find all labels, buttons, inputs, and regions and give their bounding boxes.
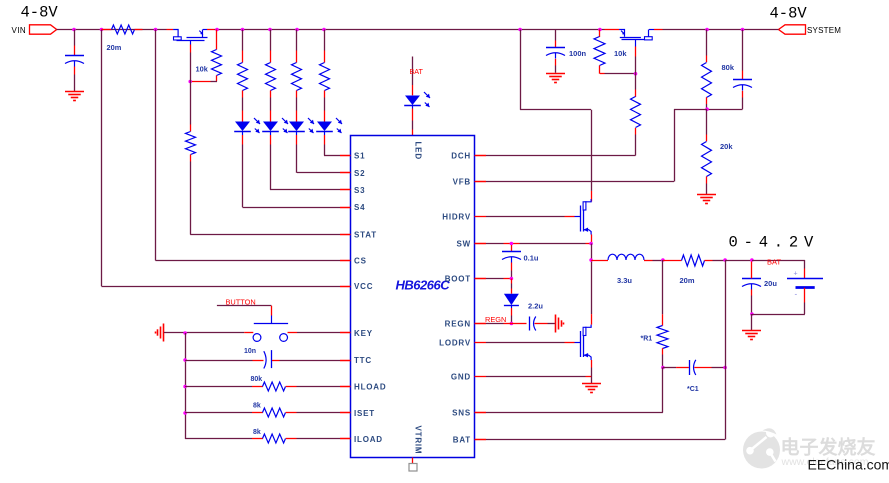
- resistor 8k ISET: [185, 412, 252, 414]
- svg-text:STAT: STAT: [354, 231, 377, 240]
- LED D3: [296, 98, 298, 111]
- svg-text:10n: 10n: [244, 348, 256, 355]
- transistor Q3 NMOS high-side: [575, 199, 592, 234]
- pin HIDRV: [475, 216, 487, 218]
- pin S2: [340, 172, 351, 174]
- pin VCC: [340, 286, 351, 288]
- resistor 80k HLOAD: [185, 386, 252, 388]
- wire KEY net left: [164, 332, 244, 334]
- svg-text:HIDRV: HIDRV: [442, 213, 471, 222]
- svg-text:0.1u: 0.1u: [524, 254, 539, 263]
- pin LED (top): [414, 142, 423, 160]
- pin STAT: [340, 234, 351, 236]
- svg-text:S4: S4: [354, 203, 365, 212]
- svg-text:*C1: *C1: [687, 386, 699, 393]
- svg-text:SYSTEM: SYSTEM: [807, 26, 841, 35]
- svg-text:DCH: DCH: [451, 152, 471, 161]
- wire CS net: [155, 30, 157, 261]
- svg-text:GND: GND: [451, 373, 471, 382]
- svg-text:8k: 8k: [253, 403, 261, 410]
- svg-text:EEChina.com: EEChina.com: [808, 457, 889, 473]
- svg-text:BOOT: BOOT: [445, 275, 471, 284]
- svg-text:VTRIM: VTRIM: [414, 426, 423, 455]
- svg-text:VFB: VFB: [453, 178, 471, 187]
- pin BOOT: [475, 278, 487, 280]
- svg-text:4-8V: 4-8V: [21, 4, 59, 22]
- node SW junction at Q3 source: [589, 242, 593, 246]
- svg-text:CS: CS: [354, 257, 367, 266]
- port VIN: [30, 25, 57, 34]
- wire GND net: [486, 376, 586, 378]
- wire BOOT net: [475, 278, 487, 280]
- node VCC junction: [100, 28, 104, 32]
- inductor 3.3u: [591, 260, 608, 262]
- wire REGN net: [475, 323, 487, 325]
- wire LED 4 to S1: [324, 145, 326, 156]
- wire Q4 drain: [591, 260, 593, 314]
- resistor 20m input sense: [102, 29, 112, 31]
- node SW junction at boot cap: [510, 242, 514, 246]
- svg-text:8k: 8k: [253, 429, 261, 436]
- node REGN junction: [510, 322, 514, 326]
- battery BT1: [804, 260, 806, 269]
- pin S3: [340, 189, 351, 191]
- capacitor 0.1u boot: [511, 245, 513, 252]
- ground 20k: [697, 194, 716, 196]
- wire SNS net: [662, 368, 664, 413]
- wire LED 3 to S2: [296, 145, 298, 173]
- node 10k-2 top junction: [598, 28, 602, 32]
- svg-text:REGN: REGN: [445, 320, 471, 329]
- resistor 20m output sense: [663, 260, 682, 262]
- resistor LED chain 4: [324, 30, 326, 51]
- wire VCC net: [101, 30, 103, 287]
- svg-text:TTC: TTC: [354, 356, 372, 365]
- svg-text:20m: 20m: [107, 43, 122, 52]
- ground input cap: [65, 91, 84, 93]
- node R1 bottom junction: [661, 366, 665, 370]
- wire LODRV net: [486, 342, 565, 344]
- svg-text:-: -: [795, 290, 798, 299]
- capacitor 20u output: [751, 262, 753, 271]
- resistor Q2 pulldown to DCH: [635, 74, 637, 90]
- pin HLOAD: [340, 386, 351, 388]
- wire KEY net right: [297, 332, 340, 334]
- pin CS: [340, 260, 351, 262]
- capacitor 100n: [555, 30, 557, 41]
- no-connect VTRIM: [412, 458, 414, 464]
- port SYSTEM: [779, 25, 806, 34]
- wire Q4 source to ground: [591, 360, 593, 368]
- svg-text:HB6266C: HB6266C: [396, 278, 451, 293]
- wire SW net: [475, 243, 487, 245]
- LED BAT indicator: [412, 85, 414, 95]
- svg-text:SW: SW: [457, 240, 472, 249]
- wire Q2 middle vertical: [635, 47, 637, 57]
- svg-text:BAT: BAT: [453, 436, 471, 445]
- pin VTRIM (bottom): [414, 426, 423, 455]
- node BOOT junction: [510, 277, 514, 281]
- svg-text:10k: 10k: [614, 49, 627, 58]
- diode boot D: [511, 279, 513, 284]
- resistor 20k: [706, 109, 708, 134]
- watermark logo: [743, 428, 780, 468]
- resistor *R1: [662, 260, 664, 314]
- capacitor 10n TTC: [185, 360, 252, 362]
- pin S1: [340, 155, 351, 157]
- svg-text:S2: S2: [354, 169, 365, 178]
- wire HIDRV net: [486, 216, 565, 218]
- svg-text:LODRV: LODRV: [439, 338, 471, 347]
- capacitor divider: [742, 30, 744, 71]
- pin SNS: [475, 412, 487, 414]
- pin KEY: [340, 332, 351, 334]
- resistor STAT pull: [190, 82, 192, 125]
- resistor LED chain 2: [270, 30, 272, 51]
- wire STAT net: [190, 162, 192, 235]
- wire key column: [185, 333, 187, 439]
- transistor Q2 PMOS: [605, 30, 663, 47]
- wire supply to Q3 drain: [520, 30, 522, 110]
- pin TTC: [340, 360, 351, 362]
- svg-text:ISET: ISET: [354, 409, 375, 418]
- svg-text:S1: S1: [354, 152, 365, 161]
- node output sense junction: [723, 258, 727, 262]
- transistor Q4 NMOS low-side: [575, 325, 592, 360]
- svg-text:SNS: SNS: [452, 409, 471, 418]
- resistor 80k: [706, 30, 708, 56]
- node key column junction: [183, 331, 187, 335]
- LED D2: [270, 98, 272, 111]
- pin S4: [340, 207, 351, 209]
- node 10k top junction: [215, 28, 219, 32]
- node output LC junction: [661, 258, 665, 262]
- ground output: [751, 314, 753, 330]
- node LED chain 2 junction: [268, 28, 272, 32]
- wire BAT pin net: [725, 260, 727, 440]
- wire BUTTON label stub: [217, 305, 272, 307]
- svg-text:*R1: *R1: [641, 336, 653, 343]
- wire DCH net: [486, 155, 636, 157]
- wire VFB net: [475, 181, 487, 183]
- transistor Q1 PMOS: [167, 30, 215, 45]
- wire 10k bottom to gate: [211, 81, 218, 83]
- ground chassis (key): [163, 324, 165, 342]
- svg-text:KEY: KEY: [354, 329, 373, 338]
- resistor 8k ILOAD: [185, 438, 252, 440]
- LED D4: [324, 98, 326, 111]
- pin ISET: [340, 412, 351, 414]
- capacitor *C1: [663, 367, 676, 369]
- pin LODRV: [475, 342, 487, 344]
- node C1 right junction: [723, 366, 727, 370]
- node LED chain 4 junction: [322, 28, 326, 32]
- svg-text:LED: LED: [414, 142, 423, 160]
- svg-text:20u: 20u: [764, 279, 777, 288]
- wire 10k-2 bottom to Q2 drain line: [600, 73, 605, 75]
- node supply branch junction: [518, 28, 522, 32]
- svg-text:4-8V: 4-8V: [770, 5, 808, 23]
- capacitor input C: [74, 30, 76, 46]
- wire main top rail: [57, 29, 167, 31]
- svg-text:20k: 20k: [720, 142, 733, 151]
- wire LED 1 to S4: [242, 145, 244, 208]
- node inductor junction: [589, 258, 593, 262]
- pin VFB: [475, 181, 487, 183]
- wire Q1 gate vertical: [190, 45, 192, 53]
- wire BAT net to LED pin: [412, 57, 414, 86]
- node Q2 drain junction: [634, 72, 638, 76]
- resistor 10k (Q1 gate): [216, 30, 218, 50]
- svg-text:80k: 80k: [722, 63, 735, 72]
- node ISET junction: [183, 411, 187, 415]
- svg-text:VCC: VCC: [354, 282, 373, 291]
- pin BAT: [475, 439, 487, 441]
- svg-text:+: +: [794, 271, 798, 278]
- resistor LED chain 3: [296, 30, 298, 51]
- node Q1 gate junction: [188, 80, 192, 84]
- svg-text:ILOAD: ILOAD: [354, 435, 383, 444]
- svg-text:S3: S3: [354, 186, 365, 195]
- svg-text:BAT: BAT: [410, 67, 424, 76]
- svg-text:BAT: BAT: [767, 257, 781, 266]
- node divider cap top junction: [741, 28, 745, 32]
- svg-text:100n: 100n: [569, 49, 587, 58]
- node VIN rail junction: [72, 28, 76, 32]
- svg-text:3.3u: 3.3u: [617, 276, 632, 285]
- svg-text:2.2u: 2.2u: [528, 302, 543, 311]
- op-amp U1 HB6266C IC body: [351, 136, 475, 458]
- svg-text:80k: 80k: [251, 376, 263, 383]
- wire LED 2 to S3: [270, 145, 272, 190]
- node CS junction: [154, 28, 158, 32]
- node divider mid junction: [705, 107, 709, 111]
- node LED chain 1 junction: [241, 28, 245, 32]
- node output cap bottom junction: [750, 312, 754, 316]
- ground power stage: [582, 383, 601, 385]
- pin SW: [475, 243, 487, 245]
- svg-text:VIN: VIN: [12, 26, 27, 35]
- svg-text:10k: 10k: [196, 65, 209, 74]
- switch BUTTON: [244, 316, 297, 342]
- resistor LED chain 1: [242, 30, 244, 51]
- ground REGN cap (right facing): [555, 315, 557, 333]
- pin GND: [475, 376, 487, 378]
- resistor 10k (Q2 gate): [599, 30, 601, 38]
- svg-text:20m: 20m: [680, 276, 695, 285]
- node TTC junction: [183, 358, 187, 362]
- node HLOAD junction: [183, 385, 187, 389]
- LED D1: [242, 98, 244, 111]
- svg-text:REGN: REGN: [485, 315, 506, 324]
- pin REGN: [475, 323, 487, 325]
- node 80k top junction: [705, 28, 709, 32]
- svg-text:HLOAD: HLOAD: [354, 383, 386, 392]
- svg-text:0-4.2V: 0-4.2V: [729, 234, 820, 252]
- node LED chain 3 junction: [295, 28, 299, 32]
- pin ILOAD: [340, 438, 351, 440]
- node battery junction: [750, 258, 754, 262]
- pin DCH: [475, 155, 487, 157]
- ground 100n cap: [546, 73, 565, 75]
- capacitor 2.2u REGN: [511, 323, 526, 325]
